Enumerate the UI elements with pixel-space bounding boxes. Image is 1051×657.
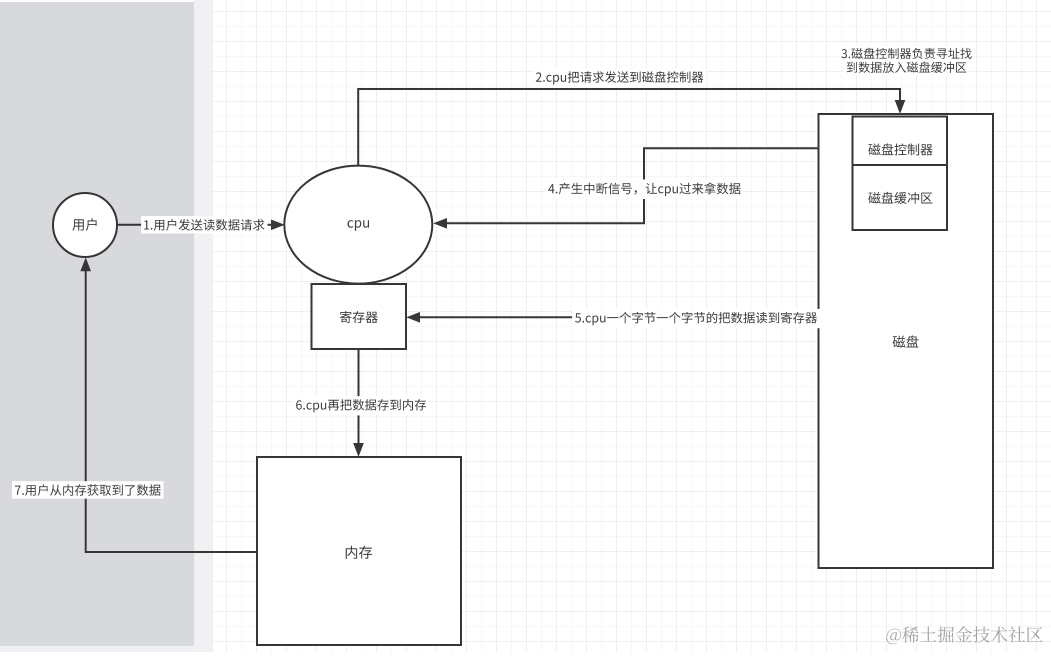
wire label 3 line1 bbox=[838, 45, 974, 62]
wire label 5 bbox=[572, 309, 820, 328]
wire label 7 bbox=[12, 481, 164, 499]
wire label 2 bbox=[533, 68, 706, 87]
wire label 4 bbox=[545, 180, 743, 200]
label: 用户 bbox=[72, 218, 96, 231]
wire label 3 line2 bbox=[844, 59, 970, 76]
wire 6: register -> memory bbox=[358, 349, 360, 444]
label: 磁盘 bbox=[893, 335, 919, 347]
label: 内存 bbox=[346, 546, 372, 559]
wire 4: disk controller -> cpu (interrupt) bbox=[446, 148, 853, 223]
label: 寄存器 bbox=[340, 311, 378, 323]
wire 2: cpu -> disk controller bbox=[358, 89, 900, 165]
disk box bbox=[819, 114, 994, 568]
wire 1: user -> cpu bbox=[117, 224, 281, 226]
label: cpu bbox=[348, 220, 370, 231]
memory box bbox=[257, 457, 461, 645]
label: 磁盘控制器 bbox=[868, 143, 932, 155]
label: 磁盘缓冲区 bbox=[868, 192, 932, 204]
disk controller box bbox=[853, 117, 948, 166]
disk buffer box bbox=[853, 165, 948, 230]
wire 7: memory -> user bbox=[86, 271, 257, 552]
wire label 6 bbox=[293, 396, 429, 415]
wire label 1 bbox=[141, 216, 267, 234]
cpu ellipse U-cpu bbox=[284, 166, 432, 284]
watermark @稀土掘金技术社区 bbox=[886, 626, 1042, 644]
wire 5: disk buffer -> register bbox=[419, 230, 900, 317]
panel top white edge bbox=[0, 0, 213, 2]
user circle bbox=[53, 193, 117, 257]
register box bbox=[312, 284, 407, 349]
left gray panel bbox=[0, 0, 194, 646]
light scrollbar strip bbox=[194, 0, 213, 652]
